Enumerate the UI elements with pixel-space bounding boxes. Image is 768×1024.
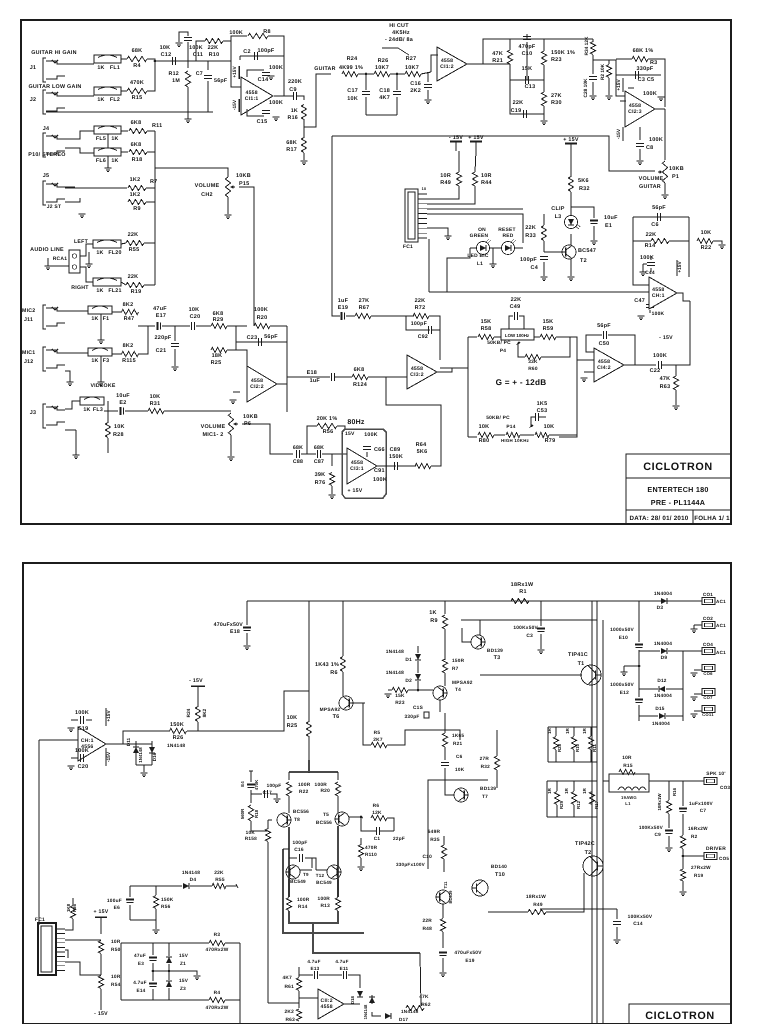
svg-text:68K: 68K [293, 445, 303, 451]
svg-text:22K: 22K [214, 870, 224, 876]
svg-text:1uF: 1uF [310, 378, 321, 384]
svg-text:1N4148: 1N4148 [401, 1009, 419, 1014]
svg-text:15V: 15V [179, 978, 189, 983]
svg-text:+ 15V: + 15V [94, 909, 109, 915]
svg-text:DRIVER: DRIVER [706, 846, 726, 852]
svg-text:22K: 22K [646, 232, 657, 238]
svg-text:E19: E19 [338, 305, 348, 311]
svg-text:R23: R23 [395, 700, 405, 706]
svg-text:AC1: AC1 [716, 650, 726, 655]
svg-text:470uFx50V: 470uFx50V [214, 622, 244, 628]
svg-text:1K: 1K [97, 97, 104, 103]
svg-text:1N4004: 1N4004 [652, 721, 670, 726]
svg-text:C89: C89 [390, 447, 401, 453]
svg-text:GUITAR LOW GAIN: GUITAR LOW GAIN [28, 84, 81, 90]
svg-text:1K: 1K [291, 108, 298, 114]
svg-text:HIGH 10KHz: HIGH 10KHz [501, 438, 530, 443]
svg-text:T6: T6 [333, 714, 340, 720]
svg-text:C28 10K: C28 10K [583, 78, 589, 97]
svg-text:C13: C13 [525, 84, 536, 90]
svg-text:15K: 15K [481, 319, 492, 325]
svg-text:C19: C19 [511, 108, 522, 114]
svg-text:D2: D2 [405, 678, 412, 684]
svg-text:R21: R21 [453, 741, 462, 746]
svg-text:+ 15V: + 15V [563, 137, 579, 143]
svg-text:330pF: 330pF [404, 714, 419, 720]
svg-text:T5: T5 [323, 812, 329, 818]
svg-text:C50: C50 [599, 341, 610, 347]
svg-text:1K5: 1K5 [537, 401, 548, 407]
svg-text:R44: R44 [481, 180, 492, 186]
svg-text:1uFx100V: 1uFx100V [689, 801, 714, 806]
svg-text:J5: J5 [43, 173, 50, 179]
svg-text:R79: R79 [545, 438, 556, 444]
svg-text:100K: 100K [75, 748, 89, 754]
svg-text:LOW 100Hz: LOW 100Hz [505, 333, 530, 338]
svg-text:1R: 1R [582, 727, 587, 733]
svg-text:RESET: RESET [498, 227, 516, 233]
svg-text:330pFx100V: 330pFx100V [396, 862, 426, 867]
svg-text:22pF: 22pF [393, 836, 405, 841]
svg-text:27K: 27K [359, 298, 370, 304]
svg-text:100uF: 100uF [107, 898, 122, 904]
svg-text:1000x50V: 1000x50V [610, 627, 634, 633]
svg-text:R11: R11 [152, 123, 162, 129]
svg-text:R10: R10 [209, 52, 220, 58]
svg-text:R18: R18 [254, 809, 259, 818]
svg-text:D3: D3 [657, 605, 664, 611]
svg-text:CICLOTRON: CICLOTRON [643, 461, 713, 473]
svg-text:R31: R31 [150, 401, 161, 407]
svg-text:R35: R35 [430, 837, 440, 843]
svg-text:10K: 10K [287, 715, 298, 721]
svg-text:R29: R29 [559, 800, 564, 809]
svg-text:22R: 22R [422, 918, 432, 924]
svg-text:100pF: 100pF [292, 840, 307, 846]
svg-text:22K: 22K [415, 298, 426, 304]
svg-text:R32: R32 [579, 186, 590, 192]
svg-text:15K: 15K [395, 693, 405, 699]
svg-text:SPK 10': SPK 10' [706, 771, 725, 777]
svg-text:R58: R58 [481, 326, 492, 332]
svg-text:1R: 1R [564, 787, 569, 793]
svg-text:C87: C87 [314, 459, 324, 465]
svg-text:MIC1: MIC1 [22, 350, 35, 356]
svg-text:R2 10K: R2 10K [600, 63, 606, 80]
svg-text:PRE - PL1144A: PRE - PL1144A [651, 498, 705, 507]
svg-text:FC1: FC1 [403, 244, 413, 250]
svg-text:150K: 150K [389, 454, 403, 460]
svg-text:1K8: 1K8 [66, 903, 71, 912]
svg-text:VIDEOKE: VIDEOKE [90, 383, 115, 389]
svg-text:649R: 649R [428, 829, 441, 835]
svg-text:GUITAR: GUITAR [314, 66, 335, 72]
svg-text:R56: R56 [323, 429, 334, 435]
svg-text:D1: D1 [405, 657, 412, 663]
svg-text:R61: R61 [284, 984, 294, 990]
svg-text:100Kx50V: 100Kx50V [639, 825, 664, 830]
svg-text:R25: R25 [287, 723, 298, 729]
svg-text:R22: R22 [701, 245, 712, 251]
svg-text:R49: R49 [533, 902, 543, 908]
svg-text:R76: R76 [315, 480, 326, 486]
svg-text:R23: R23 [551, 57, 562, 63]
svg-text:D17: D17 [399, 1017, 408, 1022]
svg-text:100K: 100K [269, 65, 283, 71]
svg-text:R10: R10 [575, 743, 580, 752]
svg-text:C14: C14 [633, 921, 643, 927]
svg-text:1K: 1K [111, 158, 118, 164]
svg-text:R6: R6 [373, 803, 380, 809]
svg-text:100K: 100K [254, 307, 268, 313]
svg-text:C16: C16 [294, 847, 304, 853]
svg-text:R33: R33 [525, 233, 536, 239]
svg-text:56pF: 56pF [597, 323, 611, 329]
svg-text:R16: R16 [288, 115, 298, 121]
svg-text:22K: 22K [525, 225, 536, 231]
svg-text:R3: R3 [214, 932, 221, 938]
svg-text:T7: T7 [482, 794, 488, 800]
svg-text:68K: 68K [314, 445, 324, 451]
svg-text:6K8: 6K8 [354, 367, 365, 373]
svg-text:100R: 100R [298, 782, 311, 788]
svg-text:- 15V: - 15V [659, 335, 673, 341]
svg-text:R158: R158 [245, 836, 257, 841]
svg-text:ENTERTECH 180: ENTERTECH 180 [647, 485, 708, 494]
svg-text:E10: E10 [619, 635, 628, 641]
svg-text:C14: C14 [258, 77, 269, 83]
svg-text:C91: C91 [374, 468, 385, 474]
svg-text:CI3:1: CI3:1 [350, 466, 364, 472]
svg-text:10K7: 10K7 [375, 65, 389, 71]
svg-text:18K: 18K [212, 353, 223, 359]
svg-text:18Rx1W: 18Rx1W [526, 894, 546, 900]
svg-text:R20: R20 [320, 788, 330, 794]
svg-text:5K6: 5K6 [417, 449, 428, 455]
svg-text:L3: L3 [555, 214, 562, 220]
svg-text:C1S: C1S [413, 705, 424, 711]
svg-text:22K: 22K [128, 232, 139, 238]
svg-text:FL20: FL20 [108, 250, 121, 256]
svg-text:R17: R17 [286, 147, 297, 153]
svg-text:R32: R32 [481, 764, 490, 769]
svg-text:R56: R56 [161, 904, 171, 910]
svg-text:33K: 33K [528, 359, 538, 365]
svg-text:10R: 10R [440, 173, 451, 179]
svg-text:J12: J12 [24, 359, 33, 365]
svg-text:C3: C3 [526, 633, 533, 639]
svg-text:R26: R26 [378, 58, 389, 64]
svg-text:R7: R7 [150, 179, 157, 185]
svg-text:R4: R4 [214, 990, 221, 996]
svg-text:E12: E12 [620, 690, 629, 696]
svg-text:5K6: 5K6 [578, 178, 589, 184]
svg-text:J4: J4 [43, 126, 50, 132]
svg-text:4K5Hz: 4K5Hz [392, 30, 410, 36]
svg-text:4558: 4558 [320, 1004, 332, 1010]
svg-text:+15V: +15V [616, 79, 622, 91]
svg-text:Z1: Z1 [180, 961, 186, 966]
svg-text:G = + - 12dB: G = + - 12dB [496, 378, 547, 387]
svg-text:R11: R11 [592, 744, 597, 752]
svg-text:330pF: 330pF [637, 66, 654, 72]
svg-text:22K: 22K [128, 274, 139, 280]
svg-text:D18: D18 [350, 995, 355, 1003]
svg-text:220K: 220K [288, 79, 302, 85]
svg-text:C11: C11 [193, 52, 203, 58]
svg-text:CI1:2: CI1:2 [440, 64, 454, 70]
svg-text:C16: C16 [410, 81, 421, 87]
svg-text:R28: R28 [557, 743, 562, 752]
svg-text:R63: R63 [660, 384, 671, 390]
svg-text:1K: 1K [96, 250, 103, 256]
svg-text:4K7: 4K7 [282, 975, 292, 981]
svg-text:GUITAR HI GAIN: GUITAR HI GAIN [31, 50, 77, 56]
svg-text:C10: C10 [522, 51, 533, 57]
svg-text:1K: 1K [96, 288, 103, 294]
svg-text:T4: T4 [455, 687, 461, 693]
svg-text:FL21: FL21 [108, 288, 121, 294]
svg-text:10K: 10K [114, 424, 125, 430]
svg-text:100K: 100K [653, 353, 667, 359]
svg-text:-15V: -15V [106, 751, 112, 762]
svg-text:AUDIO LINE: AUDIO LINE [30, 247, 64, 253]
svg-text:R12: R12 [169, 71, 179, 77]
svg-text:E4: E4 [240, 781, 245, 787]
svg-text:C23: C23 [247, 335, 258, 341]
svg-text:100pF: 100pF [520, 257, 537, 263]
svg-text:47K: 47K [660, 376, 671, 382]
svg-text:100R: 100R [315, 782, 328, 788]
svg-text:1K65: 1K65 [452, 733, 464, 738]
svg-text:1R: 1R [565, 727, 570, 733]
svg-text:- 24dB/ 8a: - 24dB/ 8a [385, 37, 414, 43]
svg-text:220pF: 220pF [155, 335, 172, 341]
svg-text:T10: T10 [495, 872, 505, 878]
svg-text:470Rx2W: 470Rx2W [205, 1005, 228, 1011]
svg-text:R30: R30 [551, 100, 562, 106]
svg-text:LED BIC: LED BIC [467, 253, 489, 259]
svg-text:470K: 470K [130, 80, 144, 86]
svg-text:RED: RED [502, 233, 513, 239]
svg-text:D16: D16 [152, 752, 157, 761]
svg-text:15K: 15K [522, 66, 533, 72]
svg-text:10KB: 10KB [669, 166, 684, 172]
svg-text:- 15V: - 15V [94, 1011, 108, 1017]
svg-text:MIC2: MIC2 [22, 308, 35, 314]
svg-text:10Rx1W: 10Rx1W [657, 793, 662, 811]
svg-text:150K: 150K [161, 897, 174, 903]
svg-text:E19: E19 [465, 958, 474, 964]
svg-text:E14: E14 [136, 988, 145, 993]
svg-text:R63: R63 [285, 1017, 295, 1023]
svg-text:R5: R5 [374, 730, 381, 736]
svg-text:FL3: FL3 [93, 407, 103, 413]
svg-text:TIP41C: TIP41C [568, 652, 588, 658]
svg-text:CI3:2: CI3:2 [410, 372, 424, 378]
svg-text:FL5: FL5 [96, 136, 106, 142]
svg-text:MPSA92: MPSA92 [320, 707, 341, 713]
svg-text:R29: R29 [213, 317, 224, 323]
svg-text:100K: 100K [75, 710, 89, 716]
svg-text:10KB: 10KB [243, 414, 258, 420]
svg-text:27K: 27K [551, 93, 562, 99]
svg-text:E18: E18 [307, 370, 317, 376]
svg-text:1K2: 1K2 [130, 177, 141, 183]
svg-text:8K2: 8K2 [202, 708, 207, 717]
svg-text:GREEN: GREEN [470, 233, 489, 239]
svg-text:1N4148: 1N4148 [386, 649, 404, 655]
svg-text:10R: 10R [622, 755, 632, 761]
svg-text:10R: 10R [111, 974, 121, 980]
svg-text:15V: 15V [179, 953, 189, 958]
svg-text:E13: E13 [311, 966, 320, 971]
svg-text:18Rx1W: 18Rx1W [511, 582, 534, 588]
svg-text:+15V: +15V [106, 710, 112, 722]
svg-text:T12: T12 [316, 873, 325, 878]
svg-text:CO2: CO2 [703, 616, 713, 621]
svg-text:4.7uF: 4.7uF [335, 959, 348, 964]
svg-text:T2: T2 [585, 850, 592, 856]
svg-text:P4: P4 [500, 348, 506, 354]
svg-text:RCA1: RCA1 [53, 256, 68, 262]
svg-text:100K: 100K [364, 432, 377, 438]
svg-text:560R: 560R [240, 808, 245, 819]
svg-text:FL2: FL2 [110, 97, 120, 103]
svg-text:C9: C9 [289, 87, 296, 93]
svg-text:R21: R21 [492, 58, 503, 64]
svg-text:E18: E18 [230, 629, 240, 635]
svg-text:R16: R16 [672, 787, 677, 796]
svg-text:+15V: +15V [232, 66, 238, 78]
svg-text:R48: R48 [422, 926, 432, 932]
svg-text:E1: E1 [605, 223, 612, 229]
svg-text:R15: R15 [623, 763, 633, 769]
svg-text:BC639: BC639 [448, 890, 453, 904]
svg-text:68K: 68K [286, 140, 297, 146]
svg-text:R9: R9 [430, 618, 437, 624]
svg-text:VOLUME: VOLUME [195, 183, 220, 189]
svg-text:R22: R22 [299, 789, 309, 795]
svg-text:20K 1%: 20K 1% [317, 416, 338, 422]
svg-text:C1: C1 [374, 836, 381, 841]
svg-text:CO11: CO11 [702, 712, 714, 717]
svg-text:MIC1- 2: MIC1- 2 [202, 432, 223, 438]
svg-text:80Hz: 80Hz [347, 419, 365, 426]
svg-text:1K: 1K [91, 316, 98, 322]
svg-text:10K: 10K [160, 45, 171, 51]
svg-text:C17: C17 [263, 790, 272, 795]
svg-text:L1: L1 [625, 801, 631, 806]
svg-text:100K: 100K [652, 311, 665, 317]
svg-text:R13: R13 [320, 903, 330, 909]
svg-text:R8: R8 [263, 29, 270, 35]
svg-text:8K2: 8K2 [123, 343, 134, 349]
svg-text:CI2:2: CI2:2 [250, 384, 264, 390]
svg-text:R55: R55 [215, 877, 225, 883]
svg-text:C19: C19 [78, 726, 89, 732]
svg-text:56pF: 56pF [652, 205, 666, 211]
svg-text:R15: R15 [132, 95, 143, 101]
svg-text:CO6: CO6 [703, 671, 713, 676]
svg-text:E17: E17 [156, 313, 166, 319]
svg-text:J3: J3 [30, 410, 37, 416]
svg-text:100pF: 100pF [258, 48, 275, 54]
svg-text:R64: R64 [416, 442, 427, 448]
svg-text:C10: C10 [422, 854, 432, 860]
svg-text:2K2: 2K2 [410, 88, 421, 94]
svg-text:R14: R14 [298, 904, 308, 910]
svg-text:50KB/ PC: 50KB/ PC [487, 340, 511, 346]
svg-text:1M: 1M [172, 78, 180, 84]
svg-text:R34 12K: R34 12K [584, 36, 590, 55]
svg-text:68K 1%: 68K 1% [633, 48, 654, 54]
svg-text:10uF: 10uF [116, 393, 130, 399]
svg-text:R12: R12 [576, 800, 581, 809]
svg-text:150R: 150R [452, 658, 465, 663]
svg-text:C4: C4 [531, 265, 538, 271]
svg-text:1N4148: 1N4148 [386, 670, 404, 676]
svg-text:10R: 10R [111, 939, 121, 945]
svg-text:1N4148: 1N4148 [167, 743, 185, 749]
svg-text:R72: R72 [415, 305, 426, 311]
svg-text:E6: E6 [114, 905, 120, 911]
svg-text:C20: C20 [78, 764, 89, 770]
svg-text:R115: R115 [122, 358, 136, 364]
svg-text:BC549: BC549 [316, 880, 332, 885]
svg-text:D11: D11 [126, 737, 131, 746]
svg-text:1K: 1K [97, 65, 104, 71]
svg-text:D15: D15 [655, 706, 664, 711]
svg-text:R54: R54 [111, 982, 121, 988]
svg-text:R25: R25 [211, 360, 222, 366]
svg-text:47uF: 47uF [153, 306, 167, 312]
svg-text:T3: T3 [494, 655, 501, 661]
svg-text:47uF: 47uF [134, 953, 146, 958]
svg-text:R24: R24 [186, 708, 191, 717]
svg-text:R110: R110 [365, 852, 377, 857]
svg-text:P15: P15 [239, 181, 249, 187]
svg-text:1K43 1%: 1K43 1% [315, 662, 339, 668]
svg-text:15K: 15K [543, 319, 554, 325]
svg-text:R26: R26 [173, 735, 184, 741]
svg-text:T11: T11 [443, 881, 448, 889]
svg-text:4K99 1%: 4K99 1% [339, 65, 363, 71]
svg-text:10uF: 10uF [604, 215, 618, 221]
svg-text:L1: L1 [477, 261, 483, 267]
svg-text:R1: R1 [519, 589, 526, 595]
svg-text:CLIP: CLIP [551, 206, 565, 212]
svg-text:J1: J1 [30, 65, 37, 71]
svg-text:27Rx2W: 27Rx2W [691, 865, 711, 870]
svg-text:100Kx50V: 100Kx50V [628, 914, 653, 920]
svg-text:100K: 100K [229, 30, 243, 36]
svg-text:470pF: 470pF [519, 44, 536, 50]
svg-text:-15V: -15V [616, 128, 622, 139]
svg-text:VOLUME: VOLUME [201, 424, 226, 430]
svg-text:1K: 1K [111, 136, 118, 142]
svg-text:C8: C8 [646, 145, 653, 151]
svg-text:100Kx50V: 100Kx50V [513, 625, 538, 631]
svg-text:T9: T9 [303, 872, 309, 877]
svg-text:10: 10 [422, 187, 427, 191]
svg-text:R6: R6 [330, 670, 337, 676]
svg-text:R62: R62 [421, 1002, 431, 1008]
svg-text:AC1: AC1 [716, 623, 726, 628]
svg-text:CI1:1: CI1:1 [245, 96, 259, 102]
svg-text:6K8: 6K8 [131, 120, 142, 126]
svg-text:P1: P1 [672, 174, 679, 180]
